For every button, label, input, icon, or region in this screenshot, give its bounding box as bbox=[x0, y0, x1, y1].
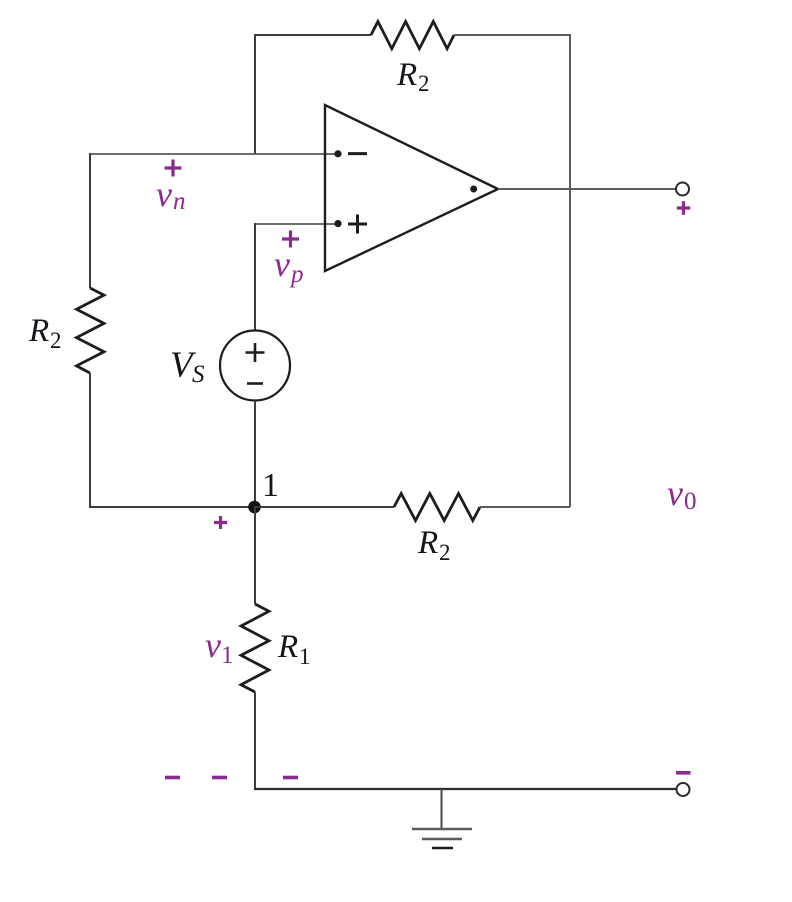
svg-text:R: R bbox=[417, 525, 438, 561]
wire bottom-left horizontal to node 1 bbox=[89, 506, 254, 508]
svg-text:2: 2 bbox=[50, 328, 62, 353]
label minus terminal (purple) bbox=[676, 771, 691, 775]
svg-text:2: 2 bbox=[439, 540, 451, 565]
wire output horizontal bbox=[498, 188, 676, 190]
resistor R2 bottom zigzag bbox=[394, 494, 480, 521]
wire left column lower vertical bbox=[89, 373, 91, 507]
svg-text:v: v bbox=[156, 174, 172, 214]
op-amp output dot bbox=[470, 186, 477, 193]
svg-text:v: v bbox=[205, 625, 221, 665]
label + vp (purple) bbox=[282, 231, 299, 248]
label minus 2 (purple) bbox=[212, 776, 227, 780]
op-amp noninverting pin dot bbox=[334, 220, 341, 227]
wire top feedback left vertical bbox=[254, 35, 256, 154]
wire bottom rail bbox=[254, 788, 677, 790]
op-amp U1 triangle bbox=[325, 105, 498, 271]
ground stub bbox=[441, 789, 443, 829]
svg-text:R: R bbox=[28, 313, 49, 349]
wire source bottom vertical bbox=[254, 401, 256, 508]
source plus sign bbox=[246, 343, 265, 362]
svg-text:1: 1 bbox=[299, 644, 311, 669]
terminal bottom-right open circle bbox=[677, 783, 690, 796]
wire node to bottom R2 bbox=[254, 506, 394, 508]
label minus 3 (purple) bbox=[283, 776, 298, 780]
resistor R2 left zigzag bbox=[77, 288, 105, 373]
ground bar 1 bbox=[412, 828, 472, 831]
source VS circle bbox=[220, 331, 290, 401]
label + terminal (purple) bbox=[677, 201, 691, 215]
source minus sign bbox=[247, 382, 263, 385]
wire node to R1 bbox=[254, 507, 256, 604]
svg-text:S: S bbox=[192, 361, 205, 388]
label + node (purple) bbox=[214, 516, 227, 529]
op-amp inverting pin dot bbox=[334, 150, 341, 157]
wire vp vertical to source bbox=[254, 223, 256, 331]
svg-text:1: 1 bbox=[262, 467, 279, 504]
wire right vertical feedback bus bbox=[569, 34, 571, 507]
svg-text:0: 0 bbox=[684, 488, 697, 515]
wire R1 to bottom rail bbox=[254, 692, 256, 789]
terminal top-right open circle bbox=[676, 183, 689, 196]
wire inverting input horizontal bbox=[89, 153, 338, 155]
svg-text:2: 2 bbox=[418, 71, 430, 96]
svg-text:v: v bbox=[274, 244, 290, 284]
ground bar 3 bbox=[432, 847, 453, 849]
resistor R1 zigzag bbox=[241, 604, 269, 692]
op-amp minus sign bbox=[348, 152, 367, 155]
svg-text:p: p bbox=[289, 261, 304, 288]
ground bar 2 bbox=[422, 838, 462, 841]
wire left column upper vertical bbox=[89, 153, 91, 288]
label minus 1 (purple) bbox=[165, 776, 180, 780]
node 1 junction dot bbox=[248, 501, 261, 514]
resistor R2 top zigzag bbox=[371, 22, 454, 49]
label + vn (purple) bbox=[165, 160, 182, 177]
op-amp plus sign bbox=[348, 215, 367, 234]
wire top feedback right horizontal bbox=[454, 34, 570, 36]
wire bottom R2 to right bus bbox=[480, 506, 570, 508]
wire noninverting input horizontal bbox=[255, 223, 338, 225]
svg-text:R: R bbox=[396, 57, 417, 93]
svg-text:1: 1 bbox=[221, 642, 234, 669]
svg-text:v: v bbox=[667, 473, 683, 513]
svg-text:n: n bbox=[173, 188, 186, 215]
wire top feedback left horizontal bbox=[254, 34, 371, 36]
svg-text:R: R bbox=[277, 629, 298, 665]
